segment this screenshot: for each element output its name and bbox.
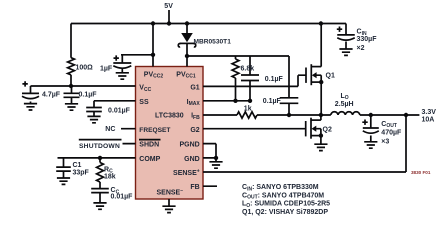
svg-text:LTC3830: LTC3830 — [155, 113, 184, 120]
svg-text:330µF: 330µF — [357, 36, 378, 43]
svg-text:0.1µF: 0.1µF — [79, 91, 98, 98]
svg-text:10A: 10A — [422, 116, 435, 123]
svg-text:0.1µF: 0.1µF — [265, 76, 284, 83]
svg-text:Q1, Q2: VISHAY Si7892DP: Q1, Q2: VISHAY Si7892DP — [242, 209, 328, 216]
svg-text:0.01µF: 0.01µF — [111, 194, 134, 201]
svg-text:0.1µF: 0.1µF — [263, 98, 282, 105]
svg-text:2.5µH: 2.5µH — [335, 101, 354, 108]
svg-text:3830 F01: 3830 F01 — [411, 170, 431, 175]
svg-text:G1: G1 — [190, 85, 199, 92]
svg-text:G2: G2 — [190, 127, 199, 134]
svg-text:5V: 5V — [164, 3, 173, 10]
svg-text:18k: 18k — [104, 173, 116, 180]
svg-text:Q1: Q1 — [326, 72, 335, 79]
svg-text:NC: NC — [105, 126, 115, 133]
svg-text:C1: C1 — [73, 162, 82, 169]
svg-text:FREQSET: FREQSET — [139, 127, 170, 134]
svg-text:0.01µF: 0.01µF — [108, 108, 131, 115]
svg-text:SENSE+: SENSE+ — [173, 168, 200, 177]
svg-text:470µF: 470µF — [381, 130, 402, 137]
svg-text:1µF: 1µF — [100, 66, 113, 73]
svg-text:FB: FB — [190, 184, 199, 191]
svg-text:×3: ×3 — [381, 139, 389, 146]
svg-text:33pF: 33pF — [73, 169, 90, 176]
svg-text:100Ω: 100Ω — [76, 64, 94, 71]
svg-text:COMP: COMP — [139, 156, 160, 163]
svg-text:Q2: Q2 — [323, 127, 332, 134]
svg-text:MBR0530T1: MBR0530T1 — [194, 38, 232, 45]
svg-text:1k: 1k — [244, 106, 252, 113]
svg-text:3.3V: 3.3V — [422, 109, 437, 116]
svg-text:SHUTDOWN: SHUTDOWN — [79, 143, 120, 150]
svg-text:4.7µF: 4.7µF — [42, 91, 61, 98]
svg-text:GND: GND — [184, 156, 200, 163]
svg-text:6.8k: 6.8k — [241, 65, 255, 72]
svg-text:SS: SS — [139, 99, 149, 106]
svg-text:×2: ×2 — [357, 45, 365, 52]
svg-text:SHDN: SHDN — [139, 142, 159, 149]
svg-text:PGND: PGND — [179, 142, 199, 149]
svg-text:SENSE−: SENSE− — [157, 188, 184, 197]
